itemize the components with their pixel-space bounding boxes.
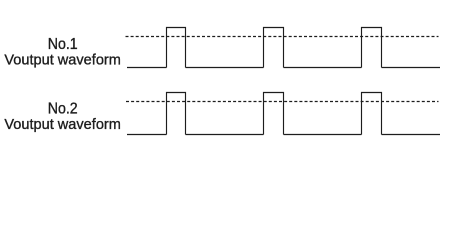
wire: No.1 baseline segment 2 — [186, 67, 264, 69]
wire: No.2 pulse 3 — [362, 93, 382, 135]
wire: No.1 baseline segment 1 — [127, 67, 167, 69]
dashed threshold level line for No.1 — [126, 36, 439, 38]
label No.1 — [48, 36, 78, 53]
wire: No.1 baseline segment 4 — [382, 67, 441, 69]
wire: No.2 baseline segment 4 — [382, 134, 441, 136]
wire: No.1 pulse 2 — [264, 28, 284, 68]
wire: No.1 pulse 1 — [167, 28, 186, 68]
wire: No.1 pulse 3 — [362, 28, 382, 68]
wire: No.2 baseline segment 3 — [284, 134, 362, 136]
wire: No.2 pulse 2 — [264, 93, 284, 135]
svg-text:Voutput waveform: Voutput waveform — [4, 52, 121, 69]
wire: No.2 pulse 1 — [167, 93, 186, 135]
label No.2 Voutput waveform — [4, 116, 121, 133]
svg-text:Voutput waveform: Voutput waveform — [4, 116, 121, 133]
wire: No.2 baseline segment 1 — [127, 134, 167, 136]
wire: No.1 baseline segment 3 — [284, 67, 362, 69]
label No.1 Voutput waveform — [4, 52, 121, 69]
dashed threshold level line for No.2 — [126, 101, 439, 103]
label No.2 — [48, 101, 78, 118]
wire: No.2 baseline segment 2 — [186, 134, 264, 136]
